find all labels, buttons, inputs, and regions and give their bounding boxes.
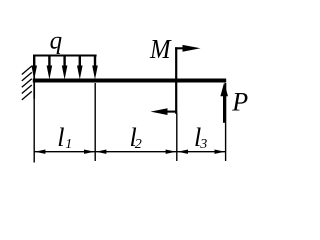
svg-text:M: M bbox=[149, 33, 172, 64]
svg-text:P: P bbox=[231, 87, 248, 116]
svg-text:q: q bbox=[50, 28, 63, 55]
